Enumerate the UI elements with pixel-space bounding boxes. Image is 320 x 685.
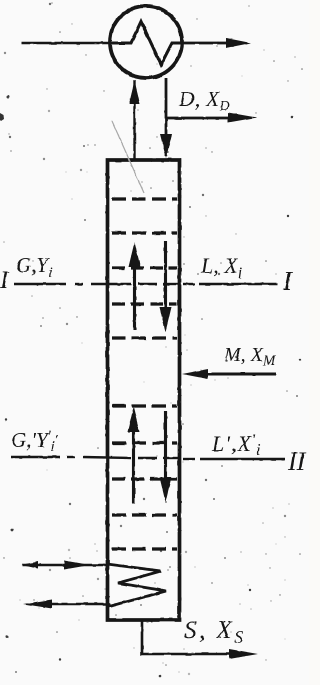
bottoms outlet pipe (142, 620, 232, 654)
vapour up arrow lower section (128, 407, 140, 503)
tray 2 (112, 231, 177, 234)
label L', X'i (211, 431, 262, 459)
scan scratch mark (112, 121, 144, 193)
section line II-II (11, 457, 285, 459)
tray 7 (112, 441, 177, 444)
label G', Y'i (11, 428, 59, 455)
svg-text:II: II (287, 447, 307, 476)
tray 4 (112, 302, 177, 305)
tray 3 (112, 266, 177, 269)
label M, XM (223, 344, 277, 369)
tray 10 (112, 547, 177, 550)
label S, XS (184, 617, 246, 647)
label L, Xi (200, 253, 242, 282)
condenser outlet arrow (right) (181, 38, 251, 48)
tray 9 (112, 513, 177, 516)
tray 5 (112, 336, 177, 339)
label I right (282, 266, 294, 296)
vapour up arrow upper section (129, 242, 141, 330)
scan speck noise dots (5, 96, 301, 678)
condenser zigzag element (112, 22, 181, 65)
reflux line with up arrow (129, 80, 140, 160)
liquid down arrow upper section (160, 241, 172, 332)
tray 8 (112, 477, 177, 480)
bottoms arrow S (229, 649, 258, 659)
svg-text:L, Xi: L, Xi (200, 253, 242, 282)
label I left (0, 267, 10, 294)
reboiler coil (107, 564, 166, 606)
reboiler heating inlet arrow (21, 561, 107, 570)
reboiler heating outlet arrow (23, 600, 107, 609)
condenser inlet line (left) (21, 42, 112, 45)
label II right (287, 447, 307, 476)
column body (108, 160, 180, 620)
feed arrow M (182, 369, 276, 379)
distillate branch arrow D (166, 113, 257, 123)
svg-text:G,Yi: G,Yi (16, 253, 52, 281)
label G, Yi (16, 253, 52, 281)
section line I-I (14, 283, 277, 285)
tray 6 (112, 404, 177, 407)
label D, XD (178, 87, 230, 114)
condenser circle (110, 6, 182, 78)
liquid down arrow lower section (160, 411, 172, 502)
tray 1 (112, 197, 177, 200)
distillate pipe with down arrow (160, 78, 172, 158)
